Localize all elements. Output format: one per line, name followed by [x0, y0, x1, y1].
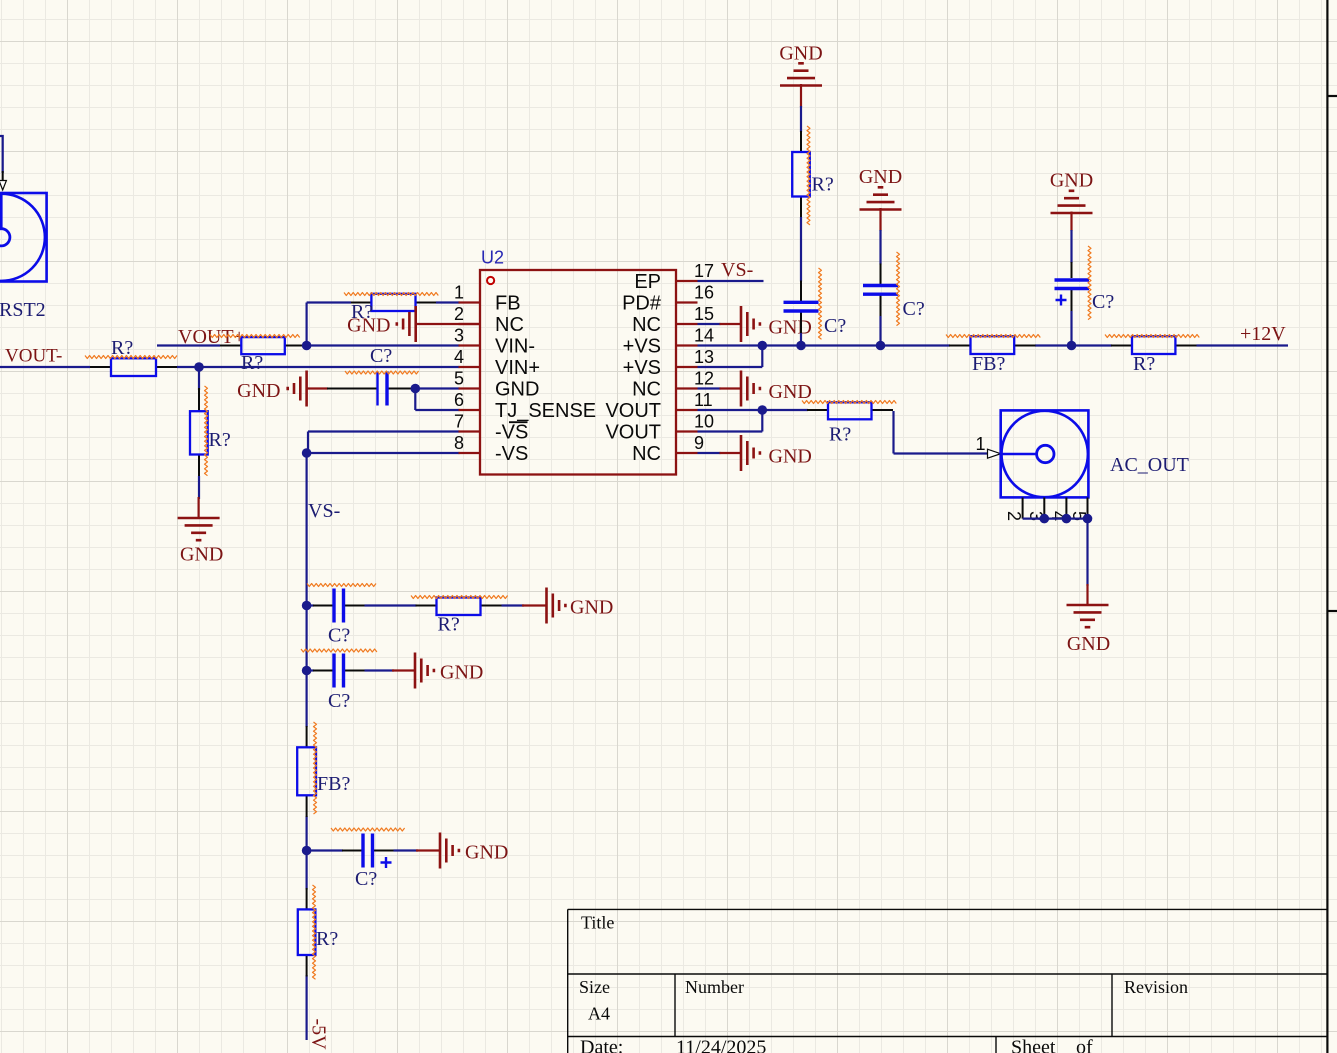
squiggle row A cap [307, 584, 376, 587]
label GND (AC_OUT) [1067, 633, 1110, 655]
wire VOUT- rail [0, 366, 460, 368]
svg-text:3: 3 [454, 326, 464, 346]
open arrow into RST2 pin [0, 181, 6, 191]
title block text A4 [588, 1004, 610, 1024]
squiggle over pin5 cap [345, 371, 419, 374]
capacitor C1 at pin 5 [327, 372, 413, 406]
capacitor C3 row B [307, 654, 365, 688]
power ground at pin 2 [397, 306, 480, 342]
AC_OUT pin 5 [1069, 498, 1089, 522]
AC_OUT pin 4 [1048, 498, 1068, 522]
junction VOUT [758, 405, 768, 415]
svg-text:5: 5 [454, 369, 464, 389]
svg-text:C?: C? [824, 315, 846, 337]
svg-text:R?: R? [1133, 353, 1155, 375]
U2 left pin 4 (VIN+) [454, 347, 540, 379]
wire VS- vertical rail [306, 453, 308, 1040]
title block text Sheet of [1011, 1037, 1093, 1053]
svg-text:NC: NC [632, 443, 661, 465]
svg-text:GND: GND [769, 317, 812, 339]
ferrite bead FB1v on VS- [297, 726, 316, 817]
svg-text:C?: C? [1092, 291, 1114, 313]
title block text Title [581, 913, 614, 933]
squiggle over feedback resistor [344, 293, 438, 296]
polarized capacitor C7 (chain 3) [1055, 262, 1090, 312]
svg-text:R?: R? [829, 424, 851, 446]
wire junction to pin 5 [413, 387, 460, 389]
svg-text:16: 16 [694, 283, 714, 303]
wire to AC_OUT pin 1 [894, 411, 989, 454]
pin number 1 (AC_OUT) [975, 434, 985, 454]
wire gnd to R (chain 1) [800, 106, 802, 132]
U2 right pin 11 (VOUT) [605, 390, 712, 422]
resistor R8h on +12V rail [1111, 336, 1197, 354]
label C? (chain 2) [903, 298, 925, 320]
svg-text:AC_OUT: AC_OUT [1110, 454, 1189, 476]
svg-text:GND: GND [347, 315, 390, 337]
wire AC_OUT ground bus [1023, 519, 1088, 586]
svg-text:U2: U2 [481, 248, 504, 268]
svg-text:C?: C? [355, 868, 377, 890]
label AC_OUT [1110, 454, 1189, 476]
svg-text:9: 9 [694, 433, 704, 453]
svg-text:GND: GND [465, 842, 508, 864]
wire gnd to C (chain 2) [879, 230, 881, 265]
wire feedback to pin 1 [436, 301, 460, 303]
AC_OUT pin 2 [1004, 498, 1024, 522]
squiggle chain 1 resistor [807, 126, 810, 225]
U2 left pin 1 (FB) [454, 283, 521, 315]
title block text Date [580, 1037, 623, 1053]
squiggle chain 3 cap [1088, 246, 1091, 320]
U2 left pin 2 (NC) [454, 304, 524, 336]
wire +VS rail [698, 344, 1289, 346]
svg-text:R?: R? [438, 614, 460, 636]
U2 left pin 3 (VIN-) [454, 326, 535, 358]
net label -5V (rotated) [308, 1019, 330, 1051]
U2 right pin 13 (+VS) [623, 347, 714, 379]
label R? (vertical resistor) [209, 429, 231, 451]
svg-text:GND: GND [859, 166, 902, 188]
svg-text:10: 10 [694, 412, 714, 432]
junction VS- [302, 448, 312, 458]
label R? (VOUT- resistor) [111, 337, 133, 359]
svg-text:GND: GND [769, 381, 812, 403]
junctions AC_OUT ground bus [1040, 514, 1093, 524]
svg-text:R?: R? [812, 174, 834, 196]
AC_OUT pin 3 [1026, 498, 1046, 522]
junction VOUT+ / pin3 [302, 341, 312, 351]
wire pin 11 [698, 409, 809, 411]
wire up to feedback loop [307, 303, 351, 346]
svg-text:2: 2 [1004, 511, 1024, 521]
wire row A cap to resistor [365, 604, 417, 606]
junction row B [302, 666, 312, 676]
wire gnd to C (chain 3) [1070, 230, 1072, 263]
svg-text:C?: C? [903, 298, 925, 320]
svg-text:GND: GND [769, 446, 812, 468]
label C? (pin 5 cap) [370, 345, 392, 367]
svg-text:FB?: FB? [972, 353, 1005, 375]
svg-text:2: 2 [454, 304, 464, 324]
power ground at pin 15 [698, 306, 760, 342]
capacitor C2 row A [307, 589, 365, 623]
resistor R5h row A [416, 598, 502, 616]
label R? (chain 1) [812, 174, 834, 196]
svg-text:14: 14 [694, 326, 714, 346]
wire pin 8 [307, 452, 460, 454]
title block text date value [676, 1037, 766, 1053]
svg-text:GND: GND [440, 662, 483, 684]
net label VS- (pin 17) [721, 259, 753, 281]
svg-text:RST2: RST2 [0, 299, 46, 321]
wire VOUT+ [157, 344, 220, 346]
svg-text:+VS: +VS [623, 336, 661, 358]
power ground at pin 9 [698, 435, 760, 471]
svg-text:of: of [1076, 1037, 1093, 1053]
svg-text:7: 7 [454, 412, 464, 432]
svg-text:Title: Title [581, 913, 614, 933]
label R? (+12V rail) [1133, 353, 1155, 375]
squiggle FB? rail [946, 335, 1040, 338]
label R? (bottom resistor) [316, 928, 338, 950]
connector AC_OUT (audio jack) [1001, 410, 1089, 497]
resistor R7v (chain 1) [792, 131, 810, 218]
title block text Size [579, 977, 610, 997]
squiggle beside vertical resistor [205, 386, 208, 476]
svg-text:NC: NC [495, 314, 524, 336]
U2 right pin 15 (NC) [632, 304, 714, 336]
open arrow AC_OUT pin 1 [988, 449, 1001, 458]
junction chain 1 [796, 341, 806, 351]
U2 right pin 9 (NC) [632, 433, 704, 465]
wire junction to pin 3 [307, 344, 460, 346]
svg-text:15: 15 [694, 304, 714, 324]
svg-text:-VS: -VS [495, 422, 528, 444]
svg-text:C?: C? [328, 690, 350, 712]
net label +12V [1240, 323, 1286, 345]
power ground (top chain 2) [860, 187, 902, 231]
squiggle FB vertical [314, 722, 317, 814]
svg-text:EP: EP [634, 271, 661, 293]
wire row C to ground [394, 849, 419, 851]
title block text Revision [1124, 977, 1188, 997]
squiggle bottom resistor [313, 885, 316, 979]
resistor R4h feedback [351, 294, 436, 311]
squiggle row A resistor [411, 596, 508, 599]
wire pin 13 up to rail [698, 346, 763, 368]
label C? (row A) [328, 625, 350, 647]
U2 left pin 6 (TJ_SENSE) [454, 390, 596, 422]
sheet border line [1327, 0, 1337, 1053]
label GND (pin 9) [769, 446, 812, 468]
svg-text:GND: GND [570, 597, 613, 619]
svg-text:GND: GND [495, 379, 539, 401]
junction pin5/pin6 [411, 384, 421, 394]
resistor R6v on VS- bottom [298, 888, 316, 977]
label GND (row A) [570, 597, 613, 619]
ferrite bead FB2h on +12V rail [949, 336, 1036, 354]
svg-text:A4: A4 [588, 1004, 610, 1024]
label GND (row B) [440, 662, 483, 684]
svg-text:GND: GND [237, 380, 280, 402]
svg-text:-VS: -VS [495, 443, 528, 465]
net label VOUT+ [178, 326, 245, 348]
U2 right pin 16 (PD#) [622, 283, 714, 315]
svg-text:Date:: Date: [580, 1037, 623, 1053]
svg-text:VOUT: VOUT [605, 422, 661, 444]
label R? (AC_OUT resistor) [829, 424, 851, 446]
resistor R9h to AC_OUT [807, 402, 893, 419]
svg-text:+12V: +12V [1240, 323, 1286, 345]
resistor R1h on VOUT- [90, 358, 177, 376]
wire down from VOUT- junction [198, 367, 200, 390]
wire pin 7 [308, 432, 460, 454]
label GND (pin 2) [347, 315, 390, 337]
svg-text:Size: Size [579, 977, 610, 997]
U2 right pin 14 (+VS) [623, 326, 714, 358]
power ground (top chain 3) [1051, 191, 1093, 231]
svg-text:+VS: +VS [623, 357, 661, 379]
label R? (row A) [438, 614, 460, 636]
power ground row B [392, 653, 434, 689]
label FB? (vertical) [317, 773, 350, 795]
U2 right pin 10 (VOUT) [605, 412, 714, 444]
label GND (pin 12) [769, 381, 812, 403]
resistor R3h on VOUT+ [220, 337, 307, 354]
wire R to C (chain 1) [800, 217, 802, 282]
svg-text:R?: R? [209, 429, 231, 451]
svg-text:13: 13 [694, 347, 714, 367]
svg-text:TJ_SENSE: TJ_SENSE [495, 400, 596, 422]
svg-text:1: 1 [454, 283, 464, 303]
label FB? (+12V rail) [972, 353, 1005, 375]
title block text Number [685, 977, 744, 997]
svg-text:VIN+: VIN+ [495, 357, 540, 379]
label GND (row C) [465, 842, 508, 864]
label GND (top chain 3) [1050, 170, 1093, 192]
wire C to rail (chain 1) [800, 333, 802, 346]
junction row C [302, 846, 312, 856]
svg-text:NC: NC [632, 314, 661, 336]
junction row A [302, 601, 312, 611]
junction chain 3 [1067, 341, 1077, 351]
wire C to rail (chain 2) [879, 316, 881, 346]
svg-text:FB?: FB? [317, 773, 350, 795]
wire pin 17 EP [698, 280, 764, 282]
junction on VOUT- [194, 362, 204, 372]
svg-text:17: 17 [694, 261, 714, 281]
resistor R2v to ground [190, 388, 208, 477]
connector RST2 (audio jack, partially off-sheet) [0, 193, 47, 282]
svg-text:6: 6 [454, 390, 464, 410]
IC U2 body [480, 270, 676, 475]
svg-text:R?: R? [241, 352, 263, 374]
svg-text:8: 8 [454, 433, 464, 453]
squiggle over VOUT+ resistor [210, 335, 300, 338]
svg-text:FB: FB [495, 293, 521, 315]
svg-text:PD#: PD# [622, 293, 662, 315]
capacitor C6 (chain 2) [863, 264, 898, 318]
power ground (top chain 1) [780, 63, 822, 107]
power ground row A [522, 588, 565, 624]
svg-text:12: 12 [694, 369, 714, 389]
label GND (pin 15) [769, 317, 812, 339]
polarized capacitor C4 row C [307, 834, 394, 869]
svg-text:1: 1 [975, 434, 985, 454]
designator U2 [481, 248, 504, 268]
net label VS- [308, 500, 340, 522]
squiggle chain 2 cap [897, 252, 900, 326]
label C? (row B) [328, 690, 350, 712]
label C? (chain 3) [1092, 291, 1114, 313]
svg-text:VIN-: VIN- [495, 336, 535, 358]
power ground row C [416, 833, 459, 869]
U2 right pin 12 (NC) [632, 369, 714, 401]
squiggle row C cap [331, 828, 405, 831]
label RST2 [0, 299, 46, 321]
svg-text:VOUT-: VOUT- [5, 346, 62, 367]
wire from off-sheet component into RST2 [0, 136, 3, 181]
label GND (below VOUT- divider) [180, 544, 223, 566]
wire pin 10 up [698, 410, 763, 432]
squiggle over VOUT- resistor [85, 356, 177, 359]
label R? (VOUT+ resistor) [241, 352, 263, 374]
squiggle R? rail [1105, 335, 1199, 338]
power ground at pin 12 [698, 371, 760, 407]
power ground at pin 5 capacitor [288, 371, 328, 407]
svg-text:4: 4 [454, 347, 464, 367]
title block [568, 909, 1328, 1053]
label C? (row C) [355, 868, 377, 890]
squiggle row B cap [301, 649, 377, 652]
wire row A to ground [502, 604, 525, 606]
svg-text:NC: NC [632, 379, 661, 401]
svg-text:VOUT: VOUT [605, 400, 661, 422]
U2 left pin 5 (GND) [454, 369, 539, 401]
wire C to rail (chain 3) [1070, 311, 1072, 346]
svg-text:GND: GND [779, 43, 822, 65]
svg-text:11/24/2025: 11/24/2025 [676, 1037, 766, 1053]
U2 right pin 17 (EP) [634, 261, 714, 293]
label R? (feedback resistor) [351, 301, 373, 323]
svg-text:GND: GND [1050, 170, 1093, 192]
junction pin13 [758, 341, 768, 351]
svg-text:R?: R? [316, 928, 338, 950]
squiggle chain 1 cap [819, 268, 822, 339]
svg-text:Revision: Revision [1124, 977, 1188, 997]
svg-text:VS-: VS- [721, 259, 753, 281]
U2 left pin 8 (-VS) [454, 433, 528, 465]
wire to ground symbol [198, 476, 200, 499]
svg-text:C?: C? [370, 345, 392, 367]
wire junction down to pin 6 [415, 389, 459, 411]
svg-text:C?: C? [328, 625, 350, 647]
svg-text:GND: GND [1067, 633, 1110, 655]
U2 left pin 7 (-VS) [454, 412, 528, 444]
svg-text:VS-: VS- [308, 500, 340, 522]
capacitor C5 (chain 1) [784, 281, 819, 334]
label GND (top chain 1) [779, 43, 822, 65]
label GND (top chain 2) [859, 166, 902, 188]
label GND (pin 5) [237, 380, 280, 402]
svg-text:Sheet: Sheet [1011, 1037, 1056, 1053]
net label VOUT- [5, 346, 62, 367]
wire row B to ground [365, 669, 395, 671]
ground GND (below VOUT- divider) [178, 497, 220, 540]
svg-text:GND: GND [180, 544, 223, 566]
svg-text:-5V: -5V [308, 1019, 330, 1051]
squiggle AC_OUT resistor [802, 401, 896, 404]
svg-text:11: 11 [694, 390, 713, 410]
svg-text:Number: Number [685, 977, 744, 997]
power ground (AC_OUT) [1067, 584, 1109, 627]
junction chain 2 [876, 341, 886, 351]
label C? (chain 1) [824, 315, 846, 337]
